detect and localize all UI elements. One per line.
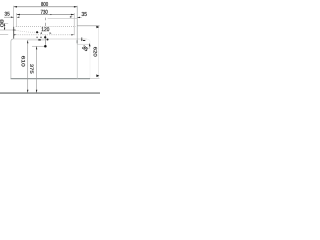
- dim 620 arrows: [96, 26, 99, 29]
- 120 arrows: [40, 32, 42, 33]
- right cluster: tiny label 35: [82, 46, 88, 51]
- drain reference line: [32, 45, 44, 47]
- wall / background panel rectangle: [11, 39, 90, 79]
- label 80 rotated: [0, 20, 3, 28]
- hidden edge dashed A: [16, 25, 76, 27]
- label 35 left: [5, 12, 10, 16]
- hidden edge dashed B: [17, 34, 75, 36]
- label 375 rotated: [30, 64, 33, 74]
- right cluster: dark dash: [83, 40, 85, 42]
- label 730: [41, 10, 48, 14]
- dimension 35 right: leader: [77, 16, 81, 18]
- extension line left inner (730): [16, 13, 18, 27]
- centre dot upper: [44, 36, 46, 38]
- basin deck top edge right half: [48, 18, 78, 20]
- dimension 35 right: arrows: [77, 17, 80, 18]
- 80 dim ext line mid: [0, 29, 13, 31]
- dashed B right arrow: [71, 34, 74, 35]
- dim 375 line: [36, 46, 37, 92]
- dimension 35 left: leader: [4, 16, 14, 18]
- dimension line 800: [14, 6, 77, 8]
- right cluster: small dim stub: [81, 37, 83, 41]
- extension line right inner (730): [73, 13, 75, 35]
- junction mark on 730 line: [50, 14, 52, 16]
- fixing blob left: [38, 39, 41, 41]
- extension line left outer (800): [13, 6, 15, 27]
- label 800: [41, 2, 48, 6]
- centreline dash-dot vertical: [45, 18, 47, 45]
- fixing blob right: [47, 39, 49, 41]
- centre mark dash left pair: [36, 36, 38, 38]
- floor line: [0, 92, 100, 94]
- 80 dim line w/ arrows: [4, 23, 5, 30]
- right cluster: up arrow + stub: [89, 43, 91, 46]
- 620 ext line top: [77, 25, 99, 27]
- label 610 rotated: [22, 56, 25, 67]
- dimension 35 left: arrows: [11, 17, 14, 18]
- dashed B left arrow: [14, 34, 17, 35]
- label 35 right: [82, 12, 87, 16]
- dimension line 730: [17, 14, 75, 16]
- wall line right: [98, 26, 100, 78]
- dim 610 line: [27, 40, 28, 92]
- right cluster: underside ref line: [77, 43, 90, 45]
- rim front-left dark segment: [13, 29, 16, 31]
- overflow dot: [36, 31, 38, 33]
- console top reference line: [28, 39, 46, 41]
- basin right edge / extension right outer (800): [76, 40, 78, 43]
- basin left edge (dark lower part): [13, 27, 15, 39]
- label 120: [42, 27, 50, 31]
- drain dot: [44, 45, 47, 48]
- label 620 rotated: [94, 47, 97, 57]
- 620 ext line bottom: [90, 77, 100, 79]
- 80 dim ext line top: [0, 22, 8, 24]
- 80 dim ext line low: [0, 33, 8, 35]
- interior bowl dotted arc: [16, 30, 42, 33]
